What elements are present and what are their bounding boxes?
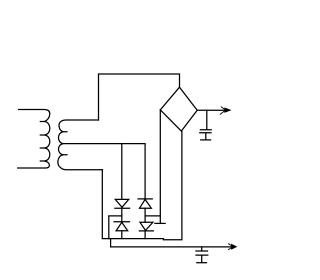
wire C2 lead from bus (201, 247, 203, 251)
ground (below C2) (197, 262, 207, 264)
diode D4 (139, 222, 153, 231)
wire D2 anode to D4 anode (144, 208, 146, 222)
capacitor C1 (200, 130, 211, 133)
wire center tap to diode columns (63, 144, 145, 199)
diode D1 (115, 199, 130, 208)
wire capacitor lead (206, 110, 208, 129)
bridge rectifier U1 (160, 87, 197, 131)
wire bridge bottom vertex down and bottom rail to transformer return (102, 131, 182, 239)
wire node A column 1 drop (121, 144, 123, 200)
wire C2 to ground (201, 255, 203, 262)
output arrow (220, 107, 230, 114)
wire output from bridge right vertex (197, 109, 227, 111)
wire secondary top tap up and across to bridge (99, 74, 180, 120)
wire C1 to ground (205, 133, 207, 139)
wire bottom bus to output arrow (111, 239, 232, 247)
wire D1 cathode to D3 cathode (121, 208, 123, 222)
capacitor C2 (196, 251, 208, 255)
transformer T1 secondary winding (58, 120, 103, 170)
transformer T1 primary winding (18, 110, 50, 169)
wire D3 anode to rail (121, 231, 123, 239)
ground (below C1) (201, 139, 211, 141)
wire D1/D3 junction stub to rail (109, 216, 122, 239)
wire D4 cathode to rail (144, 231, 146, 239)
diode D3 (114, 222, 130, 231)
diode D2 (138, 199, 152, 208)
wire bridge left vertex down (159, 110, 161, 223)
ground (below bridge left arm) (155, 222, 165, 224)
wire D2/D4 junction stub to bridge arm (145, 215, 160, 217)
bottom arrow (228, 244, 236, 250)
